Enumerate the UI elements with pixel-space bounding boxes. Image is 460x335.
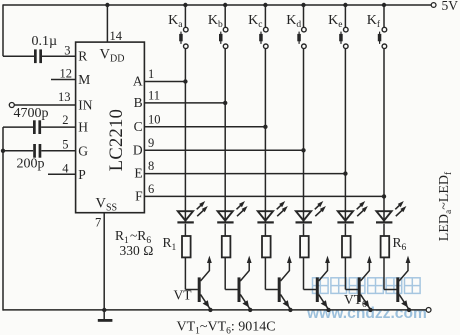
node: VT4 emitter ground junction [326, 308, 330, 312]
transistor VT1 [198, 256, 212, 310]
wire: Kb to LED column [224, 49, 226, 222]
wire: pin 1 line to key column 1 [144, 67, 185, 82]
wire: LEDa cathode to R1 [184, 224, 186, 236]
transistor VT2 [238, 256, 252, 310]
wire: R3 to VT3 base [265, 257, 278, 290]
node IN input terminal [9, 103, 14, 108]
svg-text:B: B [134, 95, 143, 110]
node: pin line junction on column 6 [382, 194, 386, 198]
wire: IN terminal to pin 13 [14, 90, 76, 105]
key switch Kf [367, 5, 387, 49]
wire: pin 6 line to key column 6 [144, 182, 384, 197]
svg-text:G: G [78, 143, 88, 158]
label R1~R6 330 ohm [115, 228, 154, 258]
svg-text:A: A [133, 74, 143, 89]
svg-text:E: E [134, 166, 142, 181]
svg-text:13: 13 [58, 90, 71, 104]
wire: C3 right lead to pin G(5) [41, 138, 76, 152]
node: pin line junction on column 5 [343, 171, 347, 175]
svg-text:C: C [134, 119, 143, 134]
svg-text:5V: 5V [442, 0, 459, 13]
wire: ground bottom rail [3, 309, 426, 311]
wire: C2 left lead down left rail [3, 127, 33, 151]
svg-text:1: 1 [148, 67, 154, 81]
node: junction C2/C3/ground [1, 149, 5, 153]
svg-text:Ke: Ke [328, 13, 342, 30]
svg-text:9: 9 [148, 136, 154, 150]
wire: C1 to pin R(3) [42, 44, 76, 58]
svg-text:6: 6 [148, 182, 154, 196]
svg-text:F: F [135, 188, 143, 203]
capacitor C3 200p [17, 144, 45, 172]
svg-text:VT1~VT6: 9014C: VT1~VT6: 9014C [177, 320, 276, 335]
svg-text:D: D [133, 142, 143, 157]
wire: Kd to LED column [303, 49, 305, 222]
svg-text:3: 3 [64, 44, 70, 58]
pin VDD label and pin 14 [100, 29, 125, 65]
5V supply terminal [431, 0, 458, 13]
svg-text:2: 2 [62, 113, 68, 127]
node: pin line junction on column 3 [263, 125, 267, 129]
svg-text:8: 8 [148, 159, 154, 173]
node: key Kf rail junction [382, 3, 386, 7]
capacitor C2 4700p [14, 106, 49, 134]
key switch Kb [208, 5, 228, 49]
node: key Kb rail junction [223, 3, 227, 7]
LEDe [337, 201, 367, 224]
LEDf [376, 201, 406, 224]
node: key Kc rail junction [263, 3, 267, 7]
wire: VSS pin 7 to ground rail [103, 213, 105, 310]
transistor VT3 [278, 256, 292, 310]
node: VT5 emitter ground junction [368, 308, 372, 312]
svg-text:LC2210: LC2210 [107, 109, 127, 171]
svg-text:11: 11 [148, 88, 160, 102]
svg-text:VT: VT [174, 288, 193, 303]
resistor R5 [342, 236, 351, 257]
svg-text:4700p: 4700p [14, 106, 49, 121]
svg-text:4: 4 [62, 161, 69, 175]
svg-text:14: 14 [110, 29, 123, 43]
wire: left branch from rail to C1 [3, 4, 34, 56]
svg-text:P: P [78, 167, 86, 182]
node: VT2 emitter ground junction [248, 308, 252, 312]
svg-text:R6: R6 [393, 235, 407, 253]
svg-text:LEDa~LEDf: LEDa~LEDf [437, 171, 454, 241]
pin P stub, pin 4 [48, 161, 76, 175]
wire: LEDf cathode to R6 [383, 224, 385, 236]
svg-text:5: 5 [62, 138, 68, 152]
wire: Kc to LED column [264, 49, 266, 222]
svg-text:VDD: VDD [100, 46, 125, 64]
terminal: ground rail right end [426, 308, 431, 313]
ground symbol [98, 310, 113, 322]
svg-text:H: H [78, 120, 88, 135]
wire: VDD pin 14 to +5V rail [106, 5, 108, 43]
capacitor C1 0.1µ [32, 34, 58, 63]
svg-text:12: 12 [60, 67, 73, 81]
wire: R4 to VT4 base [304, 257, 317, 290]
node: VT6 emitter ground junction [407, 308, 411, 312]
svg-text:Kb: Kb [208, 13, 223, 30]
svg-text:0.1µ: 0.1µ [32, 34, 58, 49]
node: key Ke rail junction [343, 3, 347, 7]
pin VSS label and pin 7 [95, 195, 117, 229]
wire: +5V top rail [3, 4, 431, 6]
transistor VT5 [358, 256, 372, 310]
svg-text:Kd: Kd [286, 13, 301, 30]
svg-text:330 Ω: 330 Ω [120, 243, 154, 258]
wire: C3 left lead [3, 150, 33, 152]
wire: pin 10 line to key column 3 [144, 112, 265, 127]
resistor R4 [300, 236, 309, 257]
LEDb [217, 201, 247, 224]
node: VT3 emitter ground junction [288, 308, 292, 312]
svg-text:10: 10 [148, 112, 161, 126]
node: key Ka rail junction [183, 3, 187, 7]
resistor R2 [222, 236, 231, 257]
transistor VT6 [396, 256, 410, 310]
LEDc [257, 201, 287, 224]
resistor R6 [381, 236, 390, 257]
wire: R2 to VT2 base [225, 257, 238, 290]
LEDd [296, 201, 326, 224]
key switch Ka [168, 5, 188, 49]
node: VDD rail junction [105, 3, 109, 7]
wire: Ka to LED column [184, 49, 186, 222]
wire: R5 to VT5 base [345, 257, 358, 290]
svg-text:VSS: VSS [96, 195, 118, 213]
label VT1~VT6: 9014C [177, 320, 276, 335]
key switch Kd [286, 5, 306, 49]
node: key Kd rail junction [301, 3, 305, 7]
node: pin line junction on column 4 [301, 148, 305, 152]
watermark [313, 278, 421, 294]
op-amp/IC U1 LC2210 box [76, 42, 145, 213]
pin M stub, pin 12 [51, 67, 76, 81]
wire: pin 9 line to key column 4 [144, 136, 303, 151]
key switch Kc [248, 5, 268, 49]
wire: pin 8 line to key column 5 [144, 159, 345, 174]
svg-text:Kf: Kf [367, 13, 381, 30]
svg-text:M: M [78, 72, 90, 87]
svg-text:R: R [78, 49, 87, 64]
svg-text:Ka: Ka [168, 13, 183, 30]
node: pin line junction on column 2 [223, 101, 227, 105]
transistor VT4 [316, 256, 330, 310]
wire: Kf to LED column [383, 49, 385, 222]
svg-text:IN: IN [78, 97, 92, 112]
svg-text:Kc: Kc [248, 13, 262, 30]
resistor R3 [262, 236, 271, 257]
LEDa [177, 201, 207, 224]
wire: LEDe cathode to R5 [344, 224, 346, 236]
wire: C2 right lead to pin H(2) [41, 113, 76, 127]
node: VSS ground junction [102, 308, 106, 312]
wire: R1 to VT1 base [185, 257, 198, 290]
svg-text:7: 7 [95, 216, 101, 230]
node: pin line junction on column 1 [183, 79, 187, 83]
label LEDa~LEDf (rotated) [437, 171, 454, 241]
wire: LEDc cathode to R3 [264, 224, 266, 236]
resistor R1 [182, 236, 191, 257]
wire: left rail down to ground rail [2, 151, 4, 311]
node: VT1 emitter ground junction [208, 308, 212, 312]
wire: R6 to VT6 base [384, 257, 397, 290]
key switch Ke [328, 5, 348, 49]
wire: LEDd cathode to R4 [303, 224, 305, 236]
wire: Ke to LED column [344, 49, 346, 222]
wire: LEDb cathode to R2 [224, 224, 226, 236]
wire: pin 11 line to key column 2 [144, 88, 225, 103]
svg-text:R1: R1 [163, 235, 177, 253]
svg-text:200p: 200p [17, 157, 45, 172]
